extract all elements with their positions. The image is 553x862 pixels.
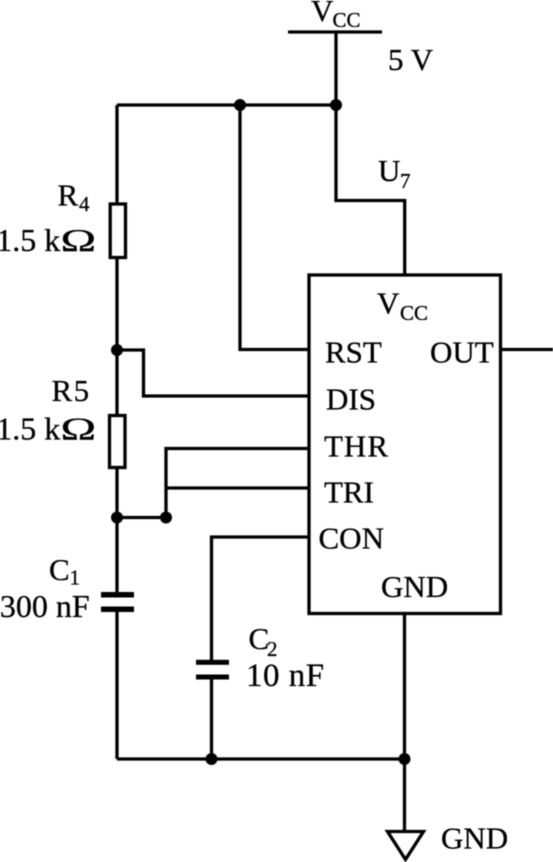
svg-text:C: C [49, 552, 70, 587]
svg-text:Ω: Ω [61, 411, 97, 446]
wire DIS [117, 350, 309, 396]
svg-text:V: V [377, 286, 400, 321]
label R4 [58, 177, 91, 216]
wire C2 to bottom rail [210, 679, 213, 759]
wire bottom rail [117, 757, 405, 760]
wire GND stem [403, 614, 406, 832]
ground symbol [388, 832, 424, 860]
svg-text:THR: THR [324, 429, 389, 464]
svg-text:GND: GND [381, 569, 448, 604]
junction bottom rail / C2 [206, 753, 218, 765]
svg-text:1.5 k: 1.5 k [0, 222, 60, 258]
junction THR-TRI vertical / rail link [160, 512, 172, 524]
IC U7 555-timer box [309, 275, 501, 614]
svg-text:10 nF: 10 nF [246, 658, 325, 694]
wire CON [212, 537, 310, 660]
svg-text:300 nF: 300 nF [0, 588, 90, 624]
svg-text:TRI: TRI [324, 475, 374, 510]
svg-text:7: 7 [400, 169, 411, 193]
power VCC bar [288, 30, 382, 33]
wire OUT [501, 348, 553, 351]
capacitor C2 [196, 660, 229, 680]
junction left rail / THR-TRI [111, 512, 123, 524]
label U7 [378, 153, 411, 193]
value 1.5 kOhm (R5) [0, 410, 96, 446]
junction left rail / DIS [111, 344, 123, 356]
svg-text:RST: RST [325, 335, 382, 370]
svg-text:R5: R5 [52, 373, 91, 408]
wire TRI [166, 486, 309, 489]
junction top rail / VCC stem [330, 99, 342, 111]
svg-text:OUT: OUT [430, 335, 494, 370]
svg-text:U: U [378, 153, 400, 188]
wire RST branch [240, 105, 309, 350]
label C1 [49, 552, 80, 590]
svg-text:CON: CON [319, 521, 384, 556]
svg-text:CC: CC [333, 8, 361, 32]
svg-text:Ω: Ω [61, 223, 97, 258]
resistor R4 [110, 204, 125, 258]
wire VCC stem to IC [336, 32, 405, 275]
svg-text:5 V: 5 V [388, 42, 434, 77]
wire top rail [117, 103, 336, 106]
wire left rail lower [115, 612, 118, 759]
svg-text:V: V [311, 0, 334, 28]
value 1.5 kOhm (R4) [0, 222, 96, 258]
svg-text:1.5 k: 1.5 k [0, 410, 60, 446]
label VCC [311, 0, 361, 32]
label C2 [249, 621, 278, 661]
junction top rail / RST branch [234, 99, 246, 111]
pin label VCC [377, 286, 428, 326]
svg-text:R: R [58, 177, 79, 212]
svg-text:GND: GND [441, 821, 508, 856]
wire left rail upper [115, 105, 118, 592]
svg-text:DIS: DIS [326, 382, 376, 417]
svg-text:CC: CC [400, 301, 428, 325]
wire THR [166, 449, 309, 518]
junction bottom rail / GND stem [399, 753, 411, 765]
svg-text:1: 1 [70, 566, 81, 590]
resistor R5 [110, 416, 126, 468]
wire rail link [117, 516, 166, 519]
capacitor C1 [101, 592, 134, 612]
svg-text:4: 4 [79, 192, 90, 216]
